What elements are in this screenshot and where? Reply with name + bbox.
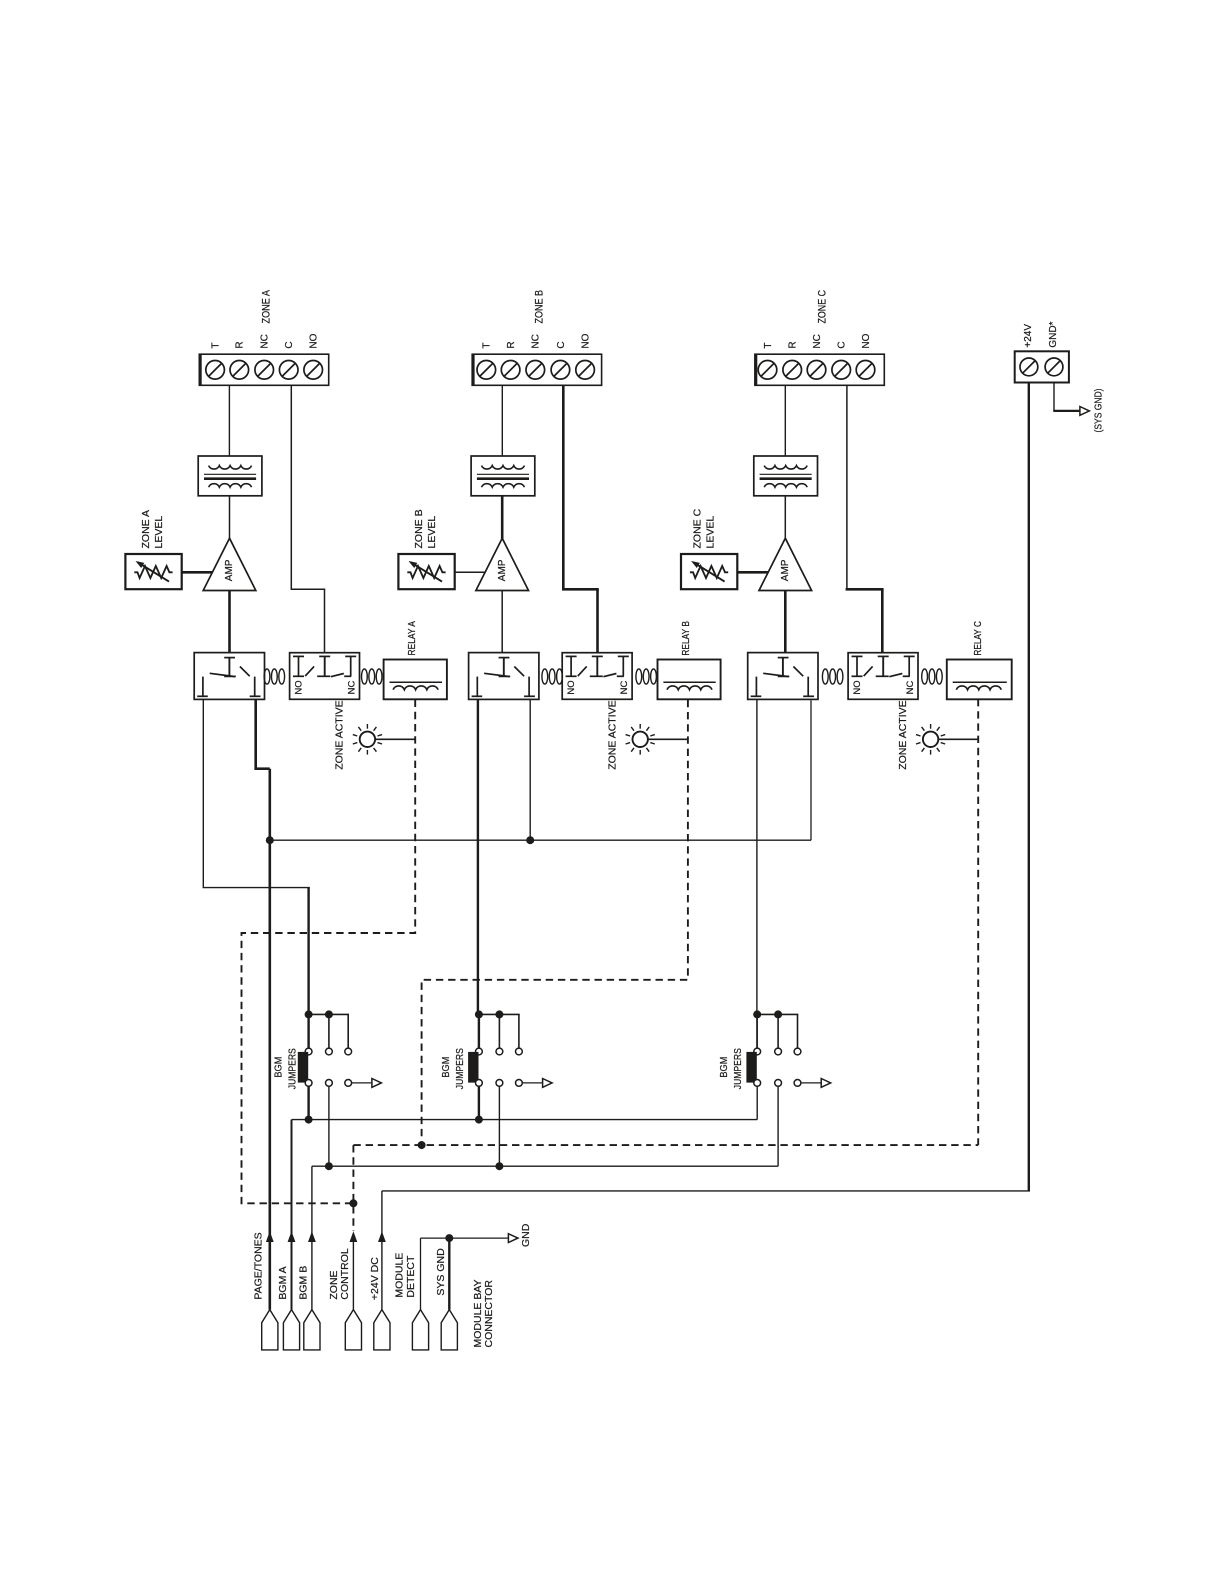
svg-text:R: R	[788, 341, 799, 348]
op-amp AMP B	[476, 538, 529, 590]
svg-text:NO: NO	[852, 680, 863, 694]
label BGM JUMPERS A	[273, 1048, 299, 1089]
relay coupling marks KAa	[264, 669, 285, 684]
wire switch A right contact to page bus (jog)	[254, 700, 269, 769]
svg-text:R: R	[235, 341, 246, 348]
changeover switch SB	[469, 653, 539, 700]
svg-text:NC: NC	[260, 334, 271, 348]
svg-text:NO: NO	[566, 680, 577, 694]
module bay connector pin BGM B	[304, 1310, 320, 1350]
module bay connector pin SYS GND	[441, 1310, 457, 1350]
svg-text:JUMPERS: JUMPERS	[732, 1048, 744, 1089]
label GND	[520, 1223, 532, 1247]
svg-text:CONTROL: CONTROL	[339, 1248, 351, 1299]
relay coupling marks KCb	[922, 669, 943, 684]
wire transformer to amp A	[229, 496, 231, 539]
wire terminal C to relay contacts B	[562, 386, 599, 653]
svg-text:ZONE B: ZONE B	[413, 509, 425, 548]
zone active lamp DSC	[916, 724, 945, 755]
svg-text:(SYS GND): (SYS GND)	[1092, 389, 1104, 433]
svg-text:DETECT: DETECT	[405, 1255, 417, 1298]
transformer TC	[754, 456, 818, 496]
label RELAY B	[681, 621, 692, 656]
node ZONE C label	[817, 290, 829, 324]
wire BGM B bus	[312, 1086, 778, 1309]
svg-text:ZONE B: ZONE B	[534, 290, 546, 324]
node BGM A junctions	[305, 1116, 483, 1124]
wire BGM A bus	[292, 1086, 758, 1309]
BGM jumper block zone B	[468, 1014, 552, 1087]
wire potentiometer to amp B	[455, 571, 486, 573]
wire lamp to relay control C	[938, 738, 978, 740]
svg-text:NO: NO	[294, 680, 305, 694]
label BGM JUMPERS C	[718, 1048, 744, 1089]
label +24V	[1023, 324, 1034, 348]
svg-text:CONNECTOR: CONNECTOR	[483, 1280, 495, 1348]
node page bus junction A	[266, 836, 274, 844]
potentiometer ZONE C LEVEL	[681, 554, 737, 589]
wire potentiometer to amp C	[737, 571, 768, 574]
svg-text:ZONE A: ZONE A	[261, 289, 273, 323]
relay coupling marks KBa	[542, 669, 563, 684]
zone active lamp DSA	[353, 724, 382, 755]
terminal labels T R NC C NO (zone C)	[763, 333, 872, 348]
wire jumper A to BGM A bus	[307, 1086, 309, 1119]
label ZONE ACTIVE A	[333, 700, 345, 769]
svg-text:PAGE/TONES: PAGE/TONES	[253, 1232, 265, 1299]
module bay connector pin ZONE CONTROL	[345, 1310, 361, 1350]
svg-text:ZONE ACTIVE: ZONE ACTIVE	[333, 700, 345, 769]
svg-text:RELAY C: RELAY C	[973, 621, 984, 656]
relay coupling marks KBb	[636, 669, 657, 684]
node zone control junction	[349, 1199, 357, 1207]
svg-text:LEVEL: LEVEL	[153, 516, 165, 549]
svg-text:BGM: BGM	[718, 1057, 730, 1078]
connector signal labels	[253, 1232, 447, 1300]
relay coupling marks KCa	[822, 669, 843, 684]
op-amp AMP A	[203, 538, 256, 590]
wire terminal R to transformer C	[784, 386, 786, 456]
svg-text:NC: NC	[531, 334, 542, 348]
wire transformer to amp B	[501, 496, 504, 539]
svg-text:C: C	[837, 341, 848, 348]
node sys gnd junction	[445, 1234, 453, 1242]
svg-text:ZONE ACTIVE: ZONE ACTIVE	[607, 700, 619, 769]
wire GND* to SYS GND arrow	[1053, 383, 1089, 416]
module bay connector pin PAGE/TONES	[262, 1310, 278, 1350]
svg-text:BGM: BGM	[273, 1057, 285, 1078]
svg-text:BGM A: BGM A	[277, 1266, 289, 1299]
svg-text:LEVEL: LEVEL	[426, 516, 438, 549]
potentiometer ZONE A LEVEL	[125, 554, 181, 589]
svg-text:NC: NC	[905, 681, 916, 695]
wire jumper A middle to BGM B bus	[328, 1086, 330, 1166]
svg-text:AMP: AMP	[224, 559, 235, 581]
label ZONE ACTIVE C	[897, 700, 909, 769]
svg-text:AMP: AMP	[780, 559, 791, 581]
changeover switch SC	[748, 653, 818, 700]
svg-text:C: C	[556, 341, 567, 348]
relay contacts NO/NC KC	[848, 653, 918, 700]
terminal block +24V / GND	[1015, 351, 1069, 382]
svg-text:BGM: BGM	[440, 1057, 452, 1078]
wire relay B control (dashed)	[422, 700, 688, 1145]
svg-text:C: C	[284, 341, 295, 348]
svg-text:T: T	[211, 342, 222, 348]
wire MODULE DETECT to GND arrow	[421, 1234, 518, 1310]
relay coupling marks KAb	[362, 669, 383, 684]
label MODULE BAY CONNECTOR	[472, 1279, 495, 1347]
label ZONE A LEVEL	[140, 510, 165, 549]
wire lamp to relay control A	[375, 738, 415, 740]
svg-text:NC: NC	[347, 681, 358, 695]
svg-text:RELAY A: RELAY A	[407, 621, 418, 656]
svg-text:NO: NO	[861, 333, 872, 348]
BGM jumper block zone C	[746, 1014, 830, 1087]
svg-text:RELAY B: RELAY B	[681, 621, 692, 656]
module bay connector pin BGM A	[283, 1310, 299, 1350]
terminal block ZONE B	[472, 354, 601, 387]
wire amp output to switch B	[501, 591, 503, 653]
relay contacts NO/NC KB	[562, 653, 632, 700]
module bay connector pin MODULE DETECT	[412, 1310, 428, 1350]
label RELAY A	[407, 621, 418, 656]
signal arrows into module	[266, 1231, 386, 1242]
relay coil box RELAY B	[658, 660, 721, 700]
svg-text:JUMPERS: JUMPERS	[454, 1048, 466, 1089]
wire terminal R to transformer A	[228, 386, 230, 456]
svg-text:NO: NO	[581, 333, 592, 348]
terminal block ZONE A	[199, 354, 328, 387]
wire amp output to switch A	[228, 591, 231, 653]
svg-text:+24V DC: +24V DC	[369, 1257, 381, 1300]
svg-text:+24V: +24V	[1023, 324, 1034, 348]
label GND*	[1048, 321, 1059, 347]
node jumper feed junctions zone B	[475, 1010, 504, 1018]
svg-text:T: T	[482, 342, 493, 348]
transformer TB	[471, 456, 535, 496]
wire relay A control (dashed)	[242, 700, 416, 1204]
transformer TA	[198, 456, 262, 496]
wire switch A left contact to BGM jumpers A	[203, 700, 310, 1015]
wire zone control pin stem	[352, 1242, 354, 1310]
svg-text:AMP: AMP	[497, 559, 508, 581]
wire switch B right contact to page bus	[529, 700, 531, 840]
node jumper feed junctions zone A	[305, 1010, 333, 1018]
terminal labels T R NC C NO (zone B)	[482, 333, 592, 348]
relay contacts NO/NC KA	[290, 653, 360, 700]
svg-text:ZONE C: ZONE C	[817, 290, 829, 324]
svg-text:BGM B: BGM B	[298, 1266, 310, 1300]
label ZONE C LEVEL	[692, 508, 717, 548]
terminal block ZONE C	[755, 354, 884, 387]
label BGM JUMPERS B	[440, 1048, 466, 1089]
label (SYS GND)	[1092, 389, 1104, 433]
potentiometer ZONE B LEVEL	[398, 554, 454, 589]
svg-text:MODULE: MODULE	[393, 1253, 405, 1298]
svg-text:NO: NO	[309, 333, 320, 348]
svg-text:GND: GND	[520, 1223, 532, 1247]
wire terminal C to relay contacts A	[291, 386, 326, 653]
wire lamp to relay control B	[648, 738, 688, 740]
wire SYS GND pin	[448, 1238, 450, 1310]
label ZONE B LEVEL	[413, 509, 438, 548]
wire relay C control (dashed)	[977, 699, 979, 1145]
wire switch C left contact to BGM jumpers C	[756, 700, 758, 1049]
module bay connector pin +24V DC	[374, 1310, 390, 1350]
node page bus junction B	[526, 836, 534, 844]
svg-text:LEVEL: LEVEL	[705, 516, 717, 549]
node ZONE A label	[261, 289, 273, 323]
svg-text:NC: NC	[812, 334, 823, 348]
wire +24V rail	[382, 383, 1030, 1310]
node jumper feed junctions zone C	[753, 1010, 782, 1018]
node relay B control junction	[418, 1141, 426, 1149]
BGM jumper block zone A	[298, 1014, 382, 1087]
svg-text:ZONE ACTIVE: ZONE ACTIVE	[897, 700, 909, 769]
wire amp output to switch C	[784, 591, 787, 653]
wire jumper B middle to BGM B bus	[498, 1086, 500, 1166]
svg-text:GND*: GND*	[1048, 321, 1059, 347]
wire zone control bus (dashed)	[353, 1145, 978, 1231]
svg-text:SYS GND: SYS GND	[435, 1248, 447, 1296]
wire terminal C to relay contacts C	[846, 386, 884, 653]
changeover switch SA	[194, 653, 264, 700]
svg-text:ZONE C: ZONE C	[692, 508, 704, 548]
wire PAGE/TONES riser	[268, 769, 271, 1310]
wire switch B left contact to BGM jumpers B	[477, 700, 479, 1015]
svg-text:NC: NC	[619, 681, 630, 695]
wire page bus	[270, 700, 811, 840]
svg-text:T: T	[763, 342, 774, 348]
svg-text:ZONE A: ZONE A	[140, 510, 152, 549]
label ZONE ACTIVE B	[607, 700, 619, 769]
zone active lamp DSB	[626, 724, 655, 755]
wire transformer to amp C	[784, 496, 786, 539]
node BGM B junctions	[325, 1162, 504, 1170]
label RELAY C	[973, 621, 984, 656]
node ZONE B label	[534, 290, 546, 324]
relay coil box RELAY A	[384, 660, 447, 700]
op-amp AMP C	[759, 538, 812, 590]
svg-text:R: R	[506, 341, 517, 348]
relay coil box RELAY C	[947, 660, 1012, 700]
wire potentiometer to amp A	[182, 571, 213, 574]
wire terminal R to transformer B	[501, 386, 503, 456]
wire jumper B to BGM A bus	[478, 1086, 480, 1119]
svg-text:JUMPERS: JUMPERS	[286, 1048, 298, 1089]
terminal labels T R NC C NO (zone A)	[211, 333, 320, 348]
